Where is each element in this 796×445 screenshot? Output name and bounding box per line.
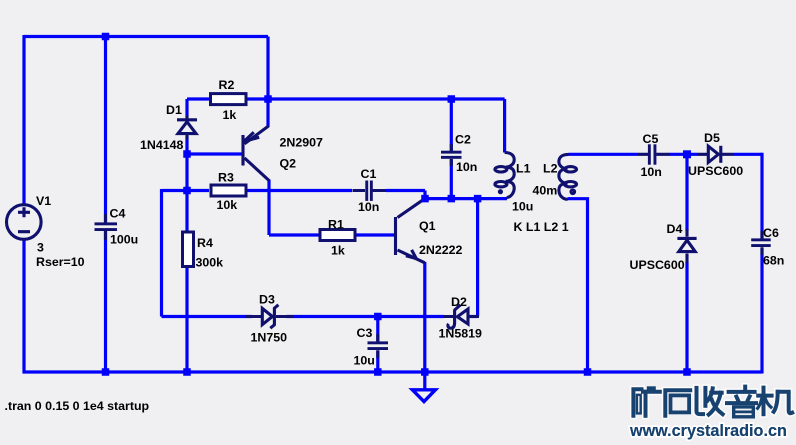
capacitor C1 [353,181,387,201]
wire C3 top lead [376,317,379,342]
svg-text:10n: 10n [358,200,379,214]
svg-text:1k: 1k [331,244,345,258]
svg-text:3: 3 [37,241,44,255]
svg-text:300k: 300k [196,256,224,270]
wire top rail drop to R2 node [266,37,269,100]
wire L2 bottom jog [568,199,588,372]
junction bottom rail R4 [183,368,191,376]
svg-text:D4: D4 [667,222,683,236]
svg-text:C4: C4 [110,207,126,221]
wire C6 bottom drop [760,249,763,374]
wire base node down to R4 [185,154,188,231]
junction C3 top [374,313,382,321]
zener diode D3 [245,305,293,328]
svg-text:C1: C1 [361,167,377,181]
svg-text:10k: 10k [217,198,238,212]
svg-text:10u: 10u [354,354,375,368]
svg-text:1N5819: 1N5819 [439,327,483,341]
svg-text:10n: 10n [456,160,477,174]
wire Q2 base lead [187,152,242,155]
wire L2 top to C5 [569,153,638,156]
svg-text:L2: L2 [543,162,558,176]
junction tank node C2 [448,195,456,203]
wire D5 right to corner [733,153,762,156]
junction top rail / C4 [102,33,110,41]
svg-text:100u: 100u [110,233,138,247]
watermark logo strokes [633,387,792,417]
wire tank node horizontal [425,197,507,200]
svg-text:D2: D2 [451,295,467,309]
svg-text:40m: 40m [533,184,558,198]
svg-text:UPSC600: UPSC600 [630,258,685,272]
svg-text:R2: R2 [219,78,235,92]
diode D4 [677,229,696,263]
svg-text:1N4148: 1N4148 [140,138,184,152]
wire D4 branch bottom [685,262,688,372]
svg-text:2N2222: 2N2222 [419,243,463,257]
wire D4 branch top [685,154,688,231]
svg-text:R4: R4 [197,236,213,250]
wire C4 bottom branch [104,231,107,373]
capacitor C4 [95,214,118,240]
svg-text:D1: D1 [166,103,182,117]
svg-text:10n: 10n [641,165,662,179]
resistor R2 [211,94,247,105]
svg-text:D3: D3 [259,293,275,307]
wire D2 riser up to emitter node [476,199,479,317]
wire D2 right to riser [469,315,478,318]
svg-text:V1: V1 [36,194,51,208]
wire Q2 collector drop [267,180,270,236]
capacitor C3 [368,334,389,358]
svg-text:R3: R3 [218,171,234,185]
junction bottom rail C3 [374,368,382,376]
svg-text:L1: L1 [516,162,531,176]
wire C4 top branch [104,37,107,223]
svg-text:C6: C6 [763,226,779,240]
wire C3 bottom lead [376,351,379,373]
wire ground stub [423,372,426,389]
wire left block bottom to D3 [162,315,253,318]
wire output corner drop to C6 [760,153,763,239]
wire feedback left segment [162,189,210,192]
svg-text:.tran 0 0.15 0 1e4 startup: .tran 0 0.15 0 1e4 startup [5,399,150,413]
capacitor C2 [441,144,462,166]
wire R2 right lead [248,97,269,100]
svg-text:C5: C5 [643,132,659,146]
wire C1 right to corner [386,189,425,192]
wire V1 bottom lead [22,240,25,374]
svg-text:C3: C3 [357,326,373,340]
wire left block vertical [160,189,163,317]
wire bottom rail [23,370,763,373]
wire D1 top lead [185,99,188,117]
svg-text:Rser=10: Rser=10 [36,255,85,269]
wire C2 top lead [450,99,453,152]
resistor R4 [183,232,194,267]
svg-text:R1: R1 [328,218,344,232]
wire R2 left lead [187,97,209,100]
junction feedback node [183,187,191,195]
transistor Q1 [396,199,425,263]
svg-text:UPSC600: UPSC600 [688,164,743,178]
wire left rail upper (V1 top lead) [22,35,25,204]
svg-text:2N2907: 2N2907 [280,136,324,150]
schottky diode D2 [444,305,479,328]
junction R2 node [264,95,272,103]
resistor R3 [211,185,246,196]
wire R4 bottom to ground rail [185,268,188,372]
capacitor C6 [751,231,771,255]
junction tank node D2 riser [474,195,482,203]
diode D5 [697,146,733,163]
junction D1 / Q2 base [183,150,191,158]
svg-text:www.crystalradio.cn: www.crystalradio.cn [629,422,787,440]
svg-text:68n: 68n [763,254,784,268]
wire node R2 to L1 top feed [268,97,505,100]
junction bottom rail ground [421,368,429,376]
wire D3 right to D2 left [287,315,445,318]
svg-text:1N750: 1N750 [251,331,288,345]
wire R1 right to Q1 base [357,233,395,236]
junction C2 top [448,95,456,103]
watermark logo white halo [633,387,792,417]
wire Q2 emitter up to node [266,99,269,127]
svg-text:D5: D5 [704,131,720,145]
voltage source V1 [7,205,42,240]
wire collector to R1 [269,233,319,236]
junction D5/D4 node [683,150,691,158]
junction bottom rail C4 [102,368,110,376]
junction bottom rail D4 [683,368,691,376]
svg-text:Q1: Q1 [419,219,436,233]
wire C1 corner drop [423,191,426,199]
resistor R1 [320,230,355,241]
junction bottom rail L2 [584,368,592,376]
wire D1 bottom to base node [185,137,188,155]
wire top rail [24,35,268,38]
wire L1 top drop [503,99,506,153]
svg-text:Q2: Q2 [280,157,297,171]
svg-text:C2: C2 [455,132,471,146]
svg-text:1k: 1k [223,108,237,122]
transistor Q2 [243,126,269,181]
wire Q1 emitter down [423,262,426,372]
inductor L1 [495,153,514,198]
wire C5 right to D5 [669,153,698,156]
junction tank node left [421,195,429,203]
inductor L2 [559,154,577,199]
capacitor C5 [637,144,669,164]
wire R3 right to C1 [248,189,353,192]
diode D1 [177,116,197,140]
svg-text:10u: 10u [512,200,533,214]
wire C2 bottom lead [450,159,453,199]
svg-text:K L1 L2 1: K L1 L2 1 [514,220,569,234]
ground [412,390,435,402]
